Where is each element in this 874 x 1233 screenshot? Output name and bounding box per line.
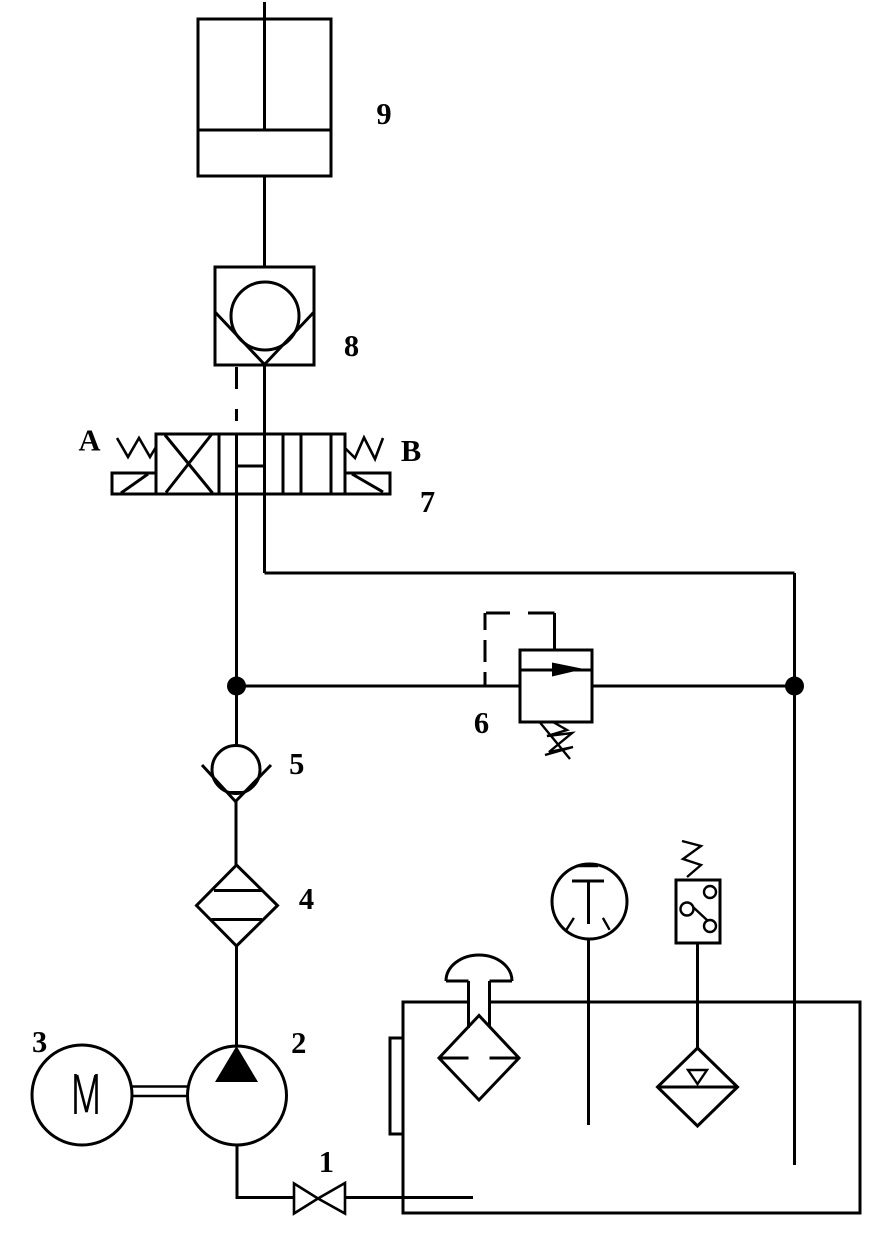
svg-text:7: 7 bbox=[420, 485, 435, 519]
valve 7 center port line left bbox=[235, 434, 238, 494]
breather diamond chord bbox=[441, 1057, 469, 1060]
valve 7 right square line 2 bbox=[330, 434, 333, 494]
wire cylinder to check valve 8 bbox=[263, 176, 266, 267]
svg-text:B: B bbox=[401, 434, 421, 468]
valve 7 right square line 1 bbox=[300, 434, 303, 494]
svg-text:3: 3 bbox=[32, 1025, 47, 1059]
suction filter inner triangle bbox=[688, 1070, 707, 1084]
level switch contact top right bbox=[704, 886, 716, 898]
svg-text:9: 9 bbox=[376, 97, 391, 131]
level switch contact bottom right bbox=[704, 920, 716, 932]
cylinder 9 piston bbox=[198, 129, 331, 132]
wire valve 7 port B down bbox=[263, 494, 266, 573]
check valve 8 seat bbox=[215, 312, 314, 365]
shutoff valve 1 right triangle bbox=[318, 1183, 345, 1214]
level switch zigzag bbox=[682, 841, 701, 877]
relief valve 6 inner line bbox=[520, 669, 592, 672]
valve 7 right solenoid diagonal bbox=[352, 474, 383, 492]
relief valve 6 pilot top dashes bbox=[486, 612, 510, 615]
relief valve 6 adjust arrow bbox=[540, 723, 570, 760]
pump 2 circle bbox=[188, 1046, 287, 1145]
directional valve 7 body bbox=[156, 434, 345, 494]
pilot line dash 2 bbox=[235, 409, 238, 421]
thermometer probe line bbox=[587, 939, 590, 1125]
motor shaft coupling lines bbox=[132, 1085, 188, 1088]
valve 7 divider left bbox=[218, 434, 221, 494]
filter 4 lower chord bbox=[212, 918, 263, 921]
valve 7 left spring bbox=[117, 438, 156, 457]
thermometer right tick bbox=[603, 918, 610, 930]
pump 2 flow triangle bbox=[215, 1046, 258, 1082]
check valve 5 seat bbox=[202, 765, 271, 802]
pilot check valve 8 body bbox=[215, 267, 314, 365]
wire B horizontal to right bbox=[265, 572, 795, 575]
wire main pressure line right segment bbox=[592, 685, 795, 688]
breather filter diamond bbox=[439, 1016, 519, 1101]
wire piston rod line bbox=[263, 2, 266, 130]
wire pump 2 down bbox=[236, 1145, 239, 1198]
check valve 8 ball bbox=[231, 282, 299, 350]
wire valve 1 into tank bbox=[345, 1196, 473, 1199]
motor 3 circle bbox=[32, 1045, 132, 1145]
level switch box bbox=[676, 880, 720, 943]
wire main pressure line left segment bbox=[237, 685, 521, 688]
thermometer T stem bbox=[587, 881, 590, 924]
breather stem bbox=[467, 981, 470, 1028]
thermometer circle bbox=[552, 864, 627, 939]
relief valve 6 spring bbox=[545, 722, 573, 755]
valve 7 center crossbar bbox=[237, 465, 265, 468]
breather dome bbox=[446, 955, 512, 981]
valve 7 left solenoid box bbox=[112, 473, 156, 494]
motor 3 M glyph bbox=[76, 1074, 97, 1114]
shutoff valve 1 left triangle bbox=[294, 1184, 318, 1214]
suction filter diamond bbox=[658, 1048, 738, 1126]
wire check valve 5 to filter 4 bbox=[235, 802, 238, 866]
node junction right bbox=[785, 677, 804, 696]
thermometer left tick bbox=[566, 918, 574, 930]
relief valve 6 arrow bbox=[552, 663, 584, 677]
valve 7 right spring bbox=[345, 438, 383, 460]
valve 7 right solenoid box bbox=[345, 473, 390, 494]
breather wings bbox=[446, 980, 469, 983]
valve 7 divider right bbox=[282, 434, 285, 494]
svg-text:5: 5 bbox=[289, 747, 304, 781]
suction filter chord bbox=[658, 1086, 738, 1089]
svg-text:4: 4 bbox=[299, 882, 314, 916]
relief valve 6 pilot vertical bbox=[553, 613, 556, 650]
filter 4 diamond bbox=[197, 865, 278, 946]
svg-text:2: 2 bbox=[291, 1026, 306, 1060]
wire level switch to filter bbox=[696, 943, 699, 1048]
svg-text:6: 6 bbox=[474, 706, 489, 740]
level switch lever bbox=[693, 907, 708, 921]
valve 7 center port line right bbox=[263, 434, 266, 494]
wire filter 4 to pump 2 bbox=[235, 946, 238, 1046]
wire junction to check valve 5 bbox=[235, 686, 238, 746]
check valve 5 seat chord bbox=[227, 791, 246, 794]
thermometer top chord bbox=[576, 865, 598, 868]
pilot line dashed valve 8 bbox=[235, 367, 238, 389]
wire valve 8 to valve 7 bbox=[263, 365, 266, 434]
tank body bbox=[403, 1002, 860, 1213]
cylinder 9 body bbox=[198, 19, 331, 176]
valve 7 crossed arrows X bbox=[165, 435, 213, 493]
wire valve 7 port A down bbox=[235, 494, 238, 686]
wire pump to valve 1 bbox=[236, 1196, 295, 1199]
svg-text:8: 8 bbox=[344, 329, 359, 363]
relief valve 6 pilot left dashes bbox=[484, 613, 487, 630]
level switch contact middle left bbox=[681, 903, 694, 916]
check valve 5 ball bbox=[212, 746, 260, 794]
filter 4 upper chord bbox=[214, 889, 262, 892]
tank left plate bbox=[390, 1038, 403, 1134]
svg-text:1: 1 bbox=[319, 1145, 334, 1179]
svg-text:A: A bbox=[78, 424, 100, 458]
wire B vertical down right side bbox=[793, 573, 796, 1165]
node junction left bbox=[227, 677, 246, 696]
thermometer T bar bbox=[572, 880, 604, 883]
valve 7 left solenoid diagonal bbox=[121, 474, 148, 493]
relief valve 6 body bbox=[520, 650, 592, 722]
